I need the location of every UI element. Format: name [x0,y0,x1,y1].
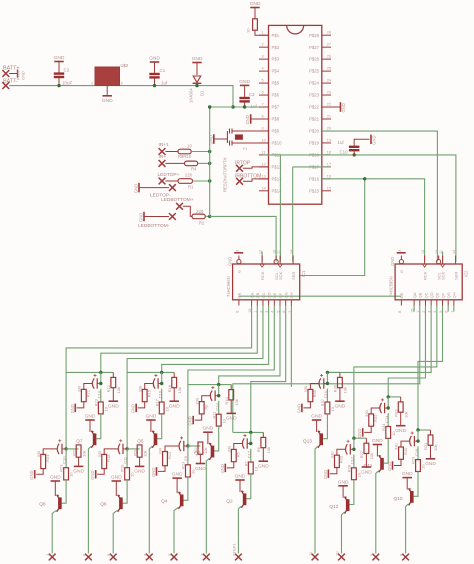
svg-text:P$3: P$3 [272,57,280,62]
capacitor C2 [54,72,64,74]
wire IC1 output 6 to driver [219,306,280,385]
svg-text:Q11: Q11 [364,463,373,469]
svg-text:SER: SER [291,272,296,280]
svg-text:QF: QF [278,292,283,298]
svg-text:OE: OE [399,292,404,298]
svg-text:RCK: RCK [422,271,427,280]
pad LEDBOTTOM- [169,213,176,220]
svg-text:P$2: P$2 [272,45,280,50]
svg-text:P$20: P$20 [309,129,320,134]
junction R2/VCC [208,215,211,218]
ground GND above C1 [150,61,160,63]
wire U2 to GND [106,86,108,96]
svg-text:3: 3 [121,82,123,86]
ground GND above R3 [250,7,260,9]
svg-text:GND: GND [192,56,203,62]
junction VCC branch [208,105,211,108]
svg-text:10k: 10k [369,453,374,459]
svg-text:P$10: P$10 [272,141,283,146]
svg-text:10: 10 [191,469,196,474]
svg-text:11: 11 [262,150,266,154]
svg-text:GND: GND [54,55,65,61]
svg-text:G: G [237,270,242,273]
wire IRBOTTOM to pin13 [243,179,269,181]
svg-text:GND: GND [258,464,269,470]
pad LEDTOP- [169,184,176,191]
svg-text:P$21: P$21 [309,117,320,122]
driver cell Q8 (C10,R24,R23,R25) [64,447,67,450]
svg-text:220: 220 [185,173,193,178]
svg-text:R19: R19 [120,464,125,472]
svg-text:D1: D1 [200,90,205,96]
svg-text:2: 2 [262,43,264,47]
ground GND at IC2 G pin [397,252,406,254]
resonator Y1 [226,131,228,143]
wire pin22 to GND [331,106,341,108]
svg-text:GND: GND [311,414,322,420]
svg-text:P$9: P$9 [272,129,280,134]
svg-text:10: 10 [357,472,362,477]
junction C10/pin18 [353,153,356,156]
svg-text:16: 16 [327,174,331,178]
svg-text:GND: GND [338,479,349,485]
svg-text:330: 330 [330,451,335,458]
driver cell Q3 (C13,R9,R11,R10) [188,384,231,386]
junction VCC corner [231,105,234,108]
svg-text:10k: 10k [116,387,121,393]
svg-text:10: 10 [130,472,135,477]
svg-text:GND: GND [226,416,237,422]
svg-text:R31: R31 [423,442,428,450]
MCU IC3 body [269,25,322,204]
svg-text:1uf: 1uf [251,104,258,109]
wire IR+1 to R10 [165,151,178,153]
shift register IC2 74HC595N [395,264,462,300]
svg-text:8: 8 [235,311,239,313]
wire IC2 output 2 to Q2 cell [233,306,420,433]
svg-text:14: 14 [290,250,294,254]
svg-text:330: 330 [137,385,142,392]
svg-text:R6: R6 [256,447,261,453]
svg-text:7: 7 [262,103,264,107]
svg-text:R37: R37 [320,398,325,406]
svg-text:Y1: Y1 [243,146,249,151]
svg-text:Q7: Q7 [76,438,83,444]
svg-text:RESONATORPTH: RESONATORPTH [223,157,228,192]
pad IRBOTTOM [236,178,243,185]
wire IC2 SCK stub [442,252,444,262]
svg-text:GND: GND [151,468,156,477]
wire C10 to GND [354,139,369,147]
wire QH cascade to pin16 net [300,179,365,276]
svg-text:10k: 10k [81,450,86,456]
svg-text:1N4004: 1N4004 [189,88,194,103]
svg-text:25: 25 [327,67,331,71]
svg-text:330: 330 [394,443,399,450]
wire C2 to GND [58,62,60,74]
svg-text:QC: QC [423,292,428,298]
wire resonator gnd [214,138,228,140]
svg-text:10: 10 [253,466,258,471]
ground GND at pin22 (rotated) [340,102,342,112]
svg-text:QB: QB [418,292,423,298]
svg-text:10: 10 [262,138,266,142]
svg-text:4: 4 [262,67,264,71]
wire IC2 output 4 to Q13 cell [327,306,431,373]
regulator U2 [95,67,120,86]
svg-text:P$27: P$27 [309,45,320,50]
svg-text:28: 28 [327,31,331,35]
junction QH/pin16 [363,177,366,180]
svg-text:R12: R12 [167,451,172,459]
svg-text:10: 10 [69,472,74,477]
svg-text:10k: 10k [433,445,438,451]
pad BATT+ [2,70,9,77]
ground GND at IC1 G pin [234,252,243,254]
svg-text:R13: R13 [181,461,186,469]
wire SCK vertical [279,155,281,262]
svg-text:10k: 10k [266,447,271,453]
svg-text:QD: QD [429,292,434,298]
svg-text:R7: R7 [243,461,248,467]
wire C1 to rail [154,78,156,85]
ground GND above D1 [192,62,202,64]
svg-text:GND: GND [195,466,206,472]
svg-text:RCK: RCK [260,271,265,280]
svg-text:QE: QE [435,292,440,298]
svg-text:23: 23 [327,91,331,95]
svg-text:GND: GND [145,414,156,420]
svg-text:10k: 10k [343,387,348,393]
wire D1 to rail [196,82,198,85]
svg-text:R4: R4 [191,167,197,172]
svg-text:6: 6 [262,91,264,95]
svg-text:Q10: Q10 [394,496,403,502]
wire SER1 vertical [292,167,294,262]
svg-text:SER: SER [453,272,458,280]
svg-text:330: 330 [158,447,163,454]
wire pin8 to GND [251,118,269,120]
svg-text:P$8: P$8 [272,117,280,122]
svg-text:220: 220 [196,209,204,214]
svg-text:R33: R33 [393,409,398,417]
svg-text:330: 330 [77,385,82,392]
svg-text:10: 10 [103,406,108,411]
svg-text:GND: GND [372,438,383,444]
svg-text:C10: C10 [340,149,349,154]
svg-text:C1: C1 [160,68,166,73]
pad BATT- [2,82,9,89]
svg-text:Q6: Q6 [100,501,107,507]
wire pin18 net [322,155,456,262]
svg-text:10k: 10k [203,448,208,454]
wire GND to C3 [244,85,246,97]
svg-text:R18: R18 [106,454,111,462]
svg-text:GND: GND [402,471,413,477]
svg-text:R2: R2 [199,221,205,226]
svg-text:R22: R22 [106,384,111,392]
svg-text:GND: GND [239,79,250,85]
pad LEDBOTTOM+ [176,203,183,210]
svg-text:QF: QF [440,292,445,298]
wire pin17 crossing [293,166,331,168]
driver cell Q4 (C9,R12,R13,R14) [186,444,189,447]
svg-text:R9: R9 [204,404,209,410]
junction C2/rail [57,84,60,87]
capacitor C1 [149,73,159,75]
svg-text:Q12: Q12 [329,504,338,510]
svg-text:10k: 10k [234,399,239,405]
wire pin20 net [322,131,438,261]
wire IC2 output 8 stub [453,306,455,312]
svg-text:R23: R23 [93,398,98,406]
svg-text:14: 14 [452,250,456,254]
svg-text:10uF: 10uF [62,81,73,86]
ground GND LEDBOTTOM- (rotated) [143,212,145,222]
pad IR+1 [159,148,166,155]
svg-text:QG: QG [283,292,288,298]
shift register IC1 74HC595N [233,264,300,300]
driver cell Q2 (C12,R5,R7,R6) [233,431,263,433]
svg-text:GND: GND [50,475,61,481]
svg-text:GND: GND [395,428,406,434]
svg-text:10: 10 [246,28,251,33]
svg-text:GND: GND [139,213,144,222]
svg-text:IC1: IC1 [301,270,306,277]
wire GND to LEDTOP- pad [139,187,169,189]
svg-text:R21: R21 [86,389,91,397]
svg-text:GND: GND [387,462,392,471]
svg-text:R5: R5 [236,452,241,458]
svg-text:LEDBOTTOM-: LEDBOTTOM- [138,223,170,229]
svg-text:R16: R16 [167,384,172,392]
svg-text:27: 27 [327,43,331,47]
svg-text:C3: C3 [249,92,255,97]
wire IC2 output 6 to Q10 cell [418,306,443,431]
svg-text:10: 10 [330,406,335,411]
driver cell Q11 (C14,R32,R34,R33) [388,396,401,398]
svg-text:IR+1: IR+1 [159,142,170,148]
svg-text:Q8: Q8 [39,501,46,507]
svg-text:3: 3 [262,55,264,59]
svg-text:R17: R17 [154,398,159,406]
svg-text:P$15: P$15 [309,188,320,193]
svg-text:QH: QH [289,292,294,298]
svg-text:GND: GND [169,404,180,410]
driver cell Q10 (C18,R30,R29,R31) [418,429,431,431]
svg-text:P$5: P$5 [272,81,280,86]
svg-text:8: 8 [398,311,402,313]
junction R4/VCC [208,162,211,165]
wire LEDBOTTOM+ to R2 [183,206,192,216]
wire IR+ to R4 [165,162,184,164]
svg-text:GND: GND [188,416,193,425]
svg-text:R34: R34 [381,423,386,431]
svg-text:GND: GND [341,103,346,112]
wire IC1 output 4 to driver [162,306,269,373]
svg-text:330: 330 [303,385,308,392]
svg-text:R32: R32 [373,414,378,422]
MCU right pins 28-15 [322,34,331,36]
svg-text:10: 10 [164,406,169,411]
svg-text:R9R10: R9R10 [178,154,192,159]
svg-text:10: 10 [335,551,340,556]
resistor R1 220 [178,179,193,184]
svg-text:GND: GND [425,461,436,467]
svg-text:P$25: P$25 [309,69,320,74]
wire IC1 output 2 to driver [101,306,257,373]
svg-text:GND: GND [73,469,84,475]
junction R10/VCC [208,150,211,153]
svg-text:R29: R29 [411,456,416,464]
svg-text:R20: R20 [132,448,137,456]
driver cell Q7 (C19,R21,R23,R22) [66,371,113,373]
ground GND LEDTOP- (rotated) [138,183,140,193]
wire IC1 output 3 to driver [127,306,263,449]
svg-text:LEDBOTTOM+: LEDBOTTOM+ [161,197,194,203]
svg-text:10k: 10k [177,387,182,393]
svg-text:P$19: P$19 [309,141,320,146]
svg-text:11: 11 [439,250,443,254]
svg-text:Q4: Q4 [161,499,168,505]
wire BATT+ stub [9,73,17,75]
resistor R4 10 [185,161,198,166]
svg-text:R1: R1 [188,185,194,190]
ground GND at pin8 (rotated) [250,114,252,124]
svg-text:R27: R27 [359,450,364,458]
wire C1 to GND [154,62,156,74]
svg-text:19: 19 [327,138,331,142]
pad IRTOP [236,165,243,172]
svg-text:IC2: IC2 [464,270,469,277]
wire C10 to pin18 net [353,151,355,155]
svg-text:SCK: SCK [278,271,283,280]
svg-text:QB: QB [255,292,260,298]
svg-text:STEP1: STEP1 [231,543,236,556]
wire pin11 crossing [263,154,332,156]
svg-text:24: 24 [327,79,331,83]
svg-text:Q5: Q5 [137,438,144,444]
svg-text:SCK: SCK [440,271,445,280]
svg-text:18: 18 [327,150,331,154]
svg-text:OE: OE [237,292,242,298]
resistor R10 10 [178,149,191,154]
driver cell Q6 (C11,R18,R19,R20) [125,447,128,450]
wire resonator to pin10 [232,142,269,144]
driver cell Q13 (C15,R35,R37,R36) [327,371,340,373]
svg-text:QA: QA [412,292,417,298]
svg-text:10: 10 [187,143,192,148]
svg-text:P$7: P$7 [272,105,280,110]
svg-text:22: 22 [327,103,331,107]
svg-text:R11: R11 [211,411,216,419]
wire GND to LEDBOTTOM- pad [144,216,169,218]
svg-text:10k: 10k [403,411,408,417]
wire GND between ICs [239,295,402,297]
ground GND above C2 [54,61,64,63]
wire VCC branch vertical [210,107,233,216]
ground GND for C10 (rotated) [370,135,372,145]
wire IC1 output 7 to Q2 cell [251,306,286,433]
svg-text:R10: R10 [224,396,229,404]
wire R1 to VCC [193,180,210,182]
wire IRTOP to pin12 [243,167,269,168]
svg-text:P$24: P$24 [309,81,320,86]
driver cell Q12 (C17,R26,R28,R27) [354,437,367,439]
svg-text:10: 10 [221,418,226,423]
wire VCC to IC1 SCL [210,216,276,261]
svg-text:330: 330 [364,409,369,416]
svg-text:74HC595N: 74HC595N [226,276,231,297]
svg-text:GND: GND [202,426,213,432]
svg-text:14: 14 [262,186,266,190]
resistor R3 10k [253,19,258,30]
svg-text:10: 10 [391,431,396,436]
svg-text:GND: GND [323,470,328,479]
ground GND resonator (rotated) [213,134,215,144]
svg-text:GND: GND [250,1,261,7]
svg-text:R26: R26 [339,455,344,463]
svg-text:P$4: P$4 [272,69,280,74]
junction R1/VCC [208,179,211,182]
svg-text:GND: GND [102,98,113,104]
svg-text:GND: GND [357,429,362,438]
wire R2 to VCC [205,215,209,217]
svg-text:Q2: Q2 [226,498,233,504]
svg-text:P$1: P$1 [272,33,280,38]
svg-text:GND: GND [372,135,377,144]
ground GND above C3 [240,84,250,86]
svg-text:GND: GND [90,470,95,479]
svg-text:R15: R15 [147,389,152,397]
svg-text:330: 330 [227,445,232,452]
svg-text:P$26: P$26 [309,57,320,62]
svg-text:GND: GND [296,404,301,413]
wire IC2 output 3 to Q11 cell [388,306,425,397]
svg-text:15: 15 [327,186,331,190]
svg-text:GND: GND [361,469,372,475]
wire C3 to pin7 net [244,102,246,107]
svg-text:R35: R35 [312,389,317,397]
svg-text:IR+: IR+ [159,154,167,160]
svg-text:GND: GND [131,404,136,413]
svg-text:BATT-: BATT- [3,79,18,85]
svg-text:5: 5 [262,79,264,83]
svg-text:P$22: P$22 [309,105,320,110]
junction C3 [243,105,246,108]
svg-text:P$16: P$16 [309,176,320,181]
svg-text:R24: R24 [45,454,50,462]
svg-text:13: 13 [262,174,266,178]
junction D1/rail [195,84,198,87]
resistor R2 220 [192,214,205,219]
svg-text:GND: GND [228,257,233,266]
svg-text:GND: GND [29,470,34,479]
pad IR+ [159,160,166,167]
svg-text:P$6: P$6 [272,93,280,98]
svg-text:GND: GND [220,464,225,473]
wire C2 to rail [58,78,60,86]
svg-text:20: 20 [327,126,331,130]
pad LEDTOP+ [159,178,166,185]
svg-text:1: 1 [91,82,93,86]
svg-text:GND: GND [108,404,119,410]
wire IC2 output 7 stub [447,306,449,312]
svg-text:R25: R25 [71,448,76,456]
wire LEDTOP+ to R1 [165,180,178,182]
MCU left pins 1-14 [259,34,269,36]
driver cell Q5 (C16,R15,R17,R16) [127,371,174,373]
